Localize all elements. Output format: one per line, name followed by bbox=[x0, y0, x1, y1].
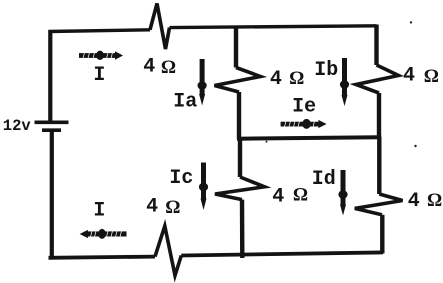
wire middle branch upper lower part bbox=[237, 92, 241, 139]
wire right side lower bottom part bbox=[380, 215, 384, 254]
wire right side lower (from middle wire) bbox=[377, 137, 381, 195]
wire middle branch lower (from middle wire) bbox=[238, 138, 242, 178]
wire top-right segment bbox=[170, 26, 377, 28]
resistor R1 (top, 4 ohm) bbox=[150, 4, 170, 50]
svg-text:4: 4 bbox=[270, 68, 282, 91]
wire left side bbox=[48, 30, 52, 121]
current arrow I (bottom, pointing left) bbox=[80, 229, 127, 239]
wire bottom-right segment bbox=[181, 252, 383, 255]
svg-text:Ω: Ω bbox=[293, 185, 308, 206]
svg-text:4: 4 bbox=[403, 65, 415, 88]
svg-text:Ω: Ω bbox=[424, 66, 439, 87]
svg-text:Ω: Ω bbox=[161, 57, 176, 78]
svg-text:Ib: Ib bbox=[314, 59, 338, 82]
svg-text:4: 4 bbox=[408, 190, 420, 213]
wire right side upper (from top wire) bbox=[374, 25, 378, 66]
svg-text:Ω: Ω bbox=[165, 197, 180, 218]
resistor R3 (upper middle branch, 4 ohm) bbox=[215, 68, 261, 93]
svg-text:I: I bbox=[93, 64, 105, 87]
svg-text:Ω: Ω bbox=[427, 190, 442, 211]
wire middle branch upper (from top wire) bbox=[234, 27, 238, 68]
wire left side below battery bbox=[50, 132, 54, 258]
wire top-left segment bbox=[49, 30, 151, 32]
svg-text:I: I bbox=[93, 200, 105, 223]
svg-text:Ic: Ic bbox=[169, 167, 193, 190]
current arrow Ia (down) bbox=[198, 59, 207, 106]
resistor R6 (right lower, 4 ohm) bbox=[355, 194, 403, 215]
svg-text:Ie: Ie bbox=[292, 96, 316, 119]
resistor R4 (right upper, 4 ohm) bbox=[356, 65, 399, 93]
current arrow I (top) bbox=[79, 51, 123, 60]
svg-text:Ia: Ia bbox=[173, 91, 197, 114]
current arrow Ib (down) bbox=[340, 58, 349, 106]
wire middle horizontal bbox=[237, 137, 380, 139]
battery V1 short plate bbox=[42, 128, 61, 132]
battery V1 long plate bbox=[35, 121, 69, 125]
wire middle branch lower bottom part bbox=[240, 200, 245, 258]
resistor R2 (bottom, 4 ohm) bbox=[155, 226, 181, 276]
current arrow Id (down) bbox=[338, 170, 347, 216]
svg-text:4: 4 bbox=[146, 196, 158, 219]
svg-text:4: 4 bbox=[143, 56, 155, 79]
svg-text:Ω: Ω bbox=[289, 68, 304, 89]
current arrow Ic (down) bbox=[199, 163, 208, 211]
wire right side upper lower part bbox=[377, 93, 381, 139]
svg-text:12v: 12v bbox=[3, 117, 32, 135]
svg-text:Id: Id bbox=[312, 168, 336, 191]
resistor R5 (lower middle branch, 4 ohm) bbox=[215, 177, 265, 200]
current arrow Ie (middle, pointing right) bbox=[281, 119, 327, 129]
wire bottom-left segment bbox=[49, 257, 156, 258]
svg-text:4: 4 bbox=[272, 186, 284, 209]
